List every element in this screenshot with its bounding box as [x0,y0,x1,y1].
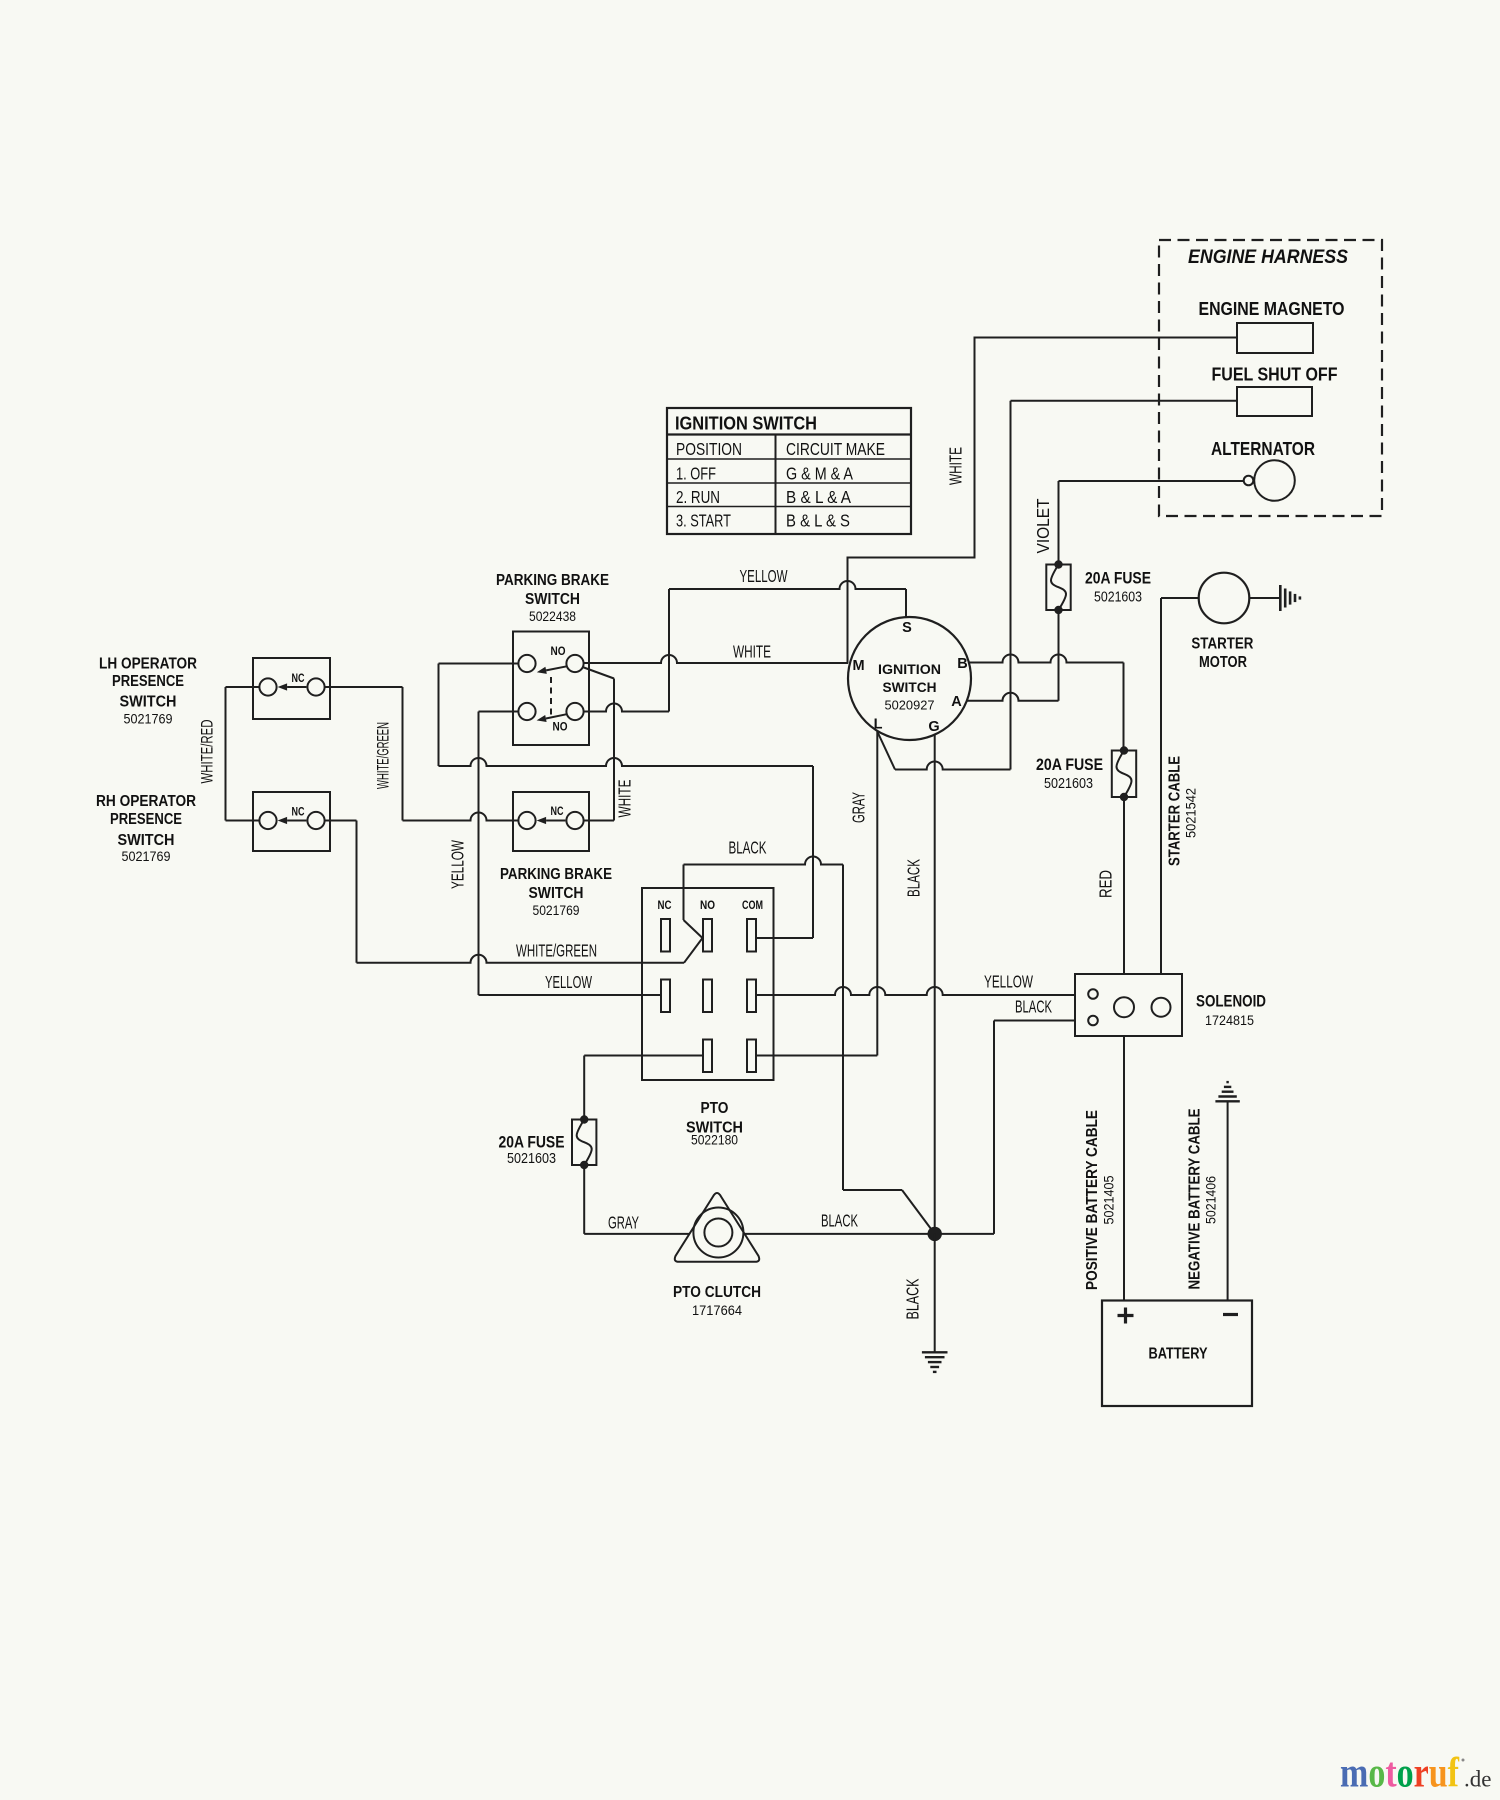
svg-text:GRAY: GRAY [608,1213,639,1233]
svg-text:WHITE: WHITE [615,780,635,818]
svg-text:5021406: 5021406 [1203,1176,1219,1224]
svg-text:MOTOR: MOTOR [1199,654,1247,671]
svg-text:G: G [928,719,939,735]
svg-text:SWITCH: SWITCH [120,694,177,711]
svg-text:CIRCUIT MAKE: CIRCUIT MAKE [786,439,885,459]
svg-text:COM: COM [742,898,763,912]
svg-text:5020927: 5020927 [885,698,935,713]
svg-text:LH OPERATOR: LH OPERATOR [99,656,197,673]
svg-text:FUEL SHUT OFF: FUEL SHUT OFF [1212,365,1338,385]
svg-text:NC: NC [551,804,564,818]
svg-text:G & M & A: G & M & A [786,464,853,484]
svg-text:5021603: 5021603 [1044,776,1093,792]
svg-text:B: B [957,656,967,672]
svg-text:NC: NC [292,805,305,819]
svg-text:M: M [852,658,864,674]
svg-text:5021603: 5021603 [1094,590,1142,606]
svg-text:SOLENOID: SOLENOID [1196,993,1266,1011]
svg-text:5021405: 5021405 [1101,1175,1117,1224]
svg-text:5022438: 5022438 [529,608,576,624]
svg-text:ENGINE HARNESS: ENGINE HARNESS [1188,246,1348,268]
svg-text:NC: NC [292,671,305,685]
svg-text:ENGINE MAGNETO: ENGINE MAGNETO [1199,299,1345,319]
svg-text:1. OFF: 1. OFF [676,464,716,484]
svg-text:S: S [902,620,912,636]
svg-text:5021603: 5021603 [507,1151,556,1167]
svg-text:NO: NO [700,898,715,912]
svg-text:WHITE/GREEN: WHITE/GREEN [516,941,597,961]
svg-text:5021769: 5021769 [533,902,580,918]
svg-text:RED: RED [1096,870,1116,898]
svg-text:A: A [951,694,962,710]
svg-text:5022180: 5022180 [691,1132,738,1148]
svg-text:BLACK: BLACK [903,1278,923,1319]
svg-text:20A FUSE: 20A FUSE [1085,569,1151,588]
svg-text:STARTER: STARTER [1191,636,1253,653]
svg-text:BLACK: BLACK [729,838,767,858]
svg-text:BATTERY: BATTERY [1149,1346,1208,1363]
svg-text:PARKING BRAKE: PARKING BRAKE [496,572,609,589]
svg-text:PTO: PTO [701,1100,729,1117]
svg-text:PRESENCE: PRESENCE [112,673,184,690]
svg-text:1717664: 1717664 [692,1302,742,1318]
svg-text:NEGATIVE BATTERY CABLE: NEGATIVE BATTERY CABLE [1187,1109,1204,1290]
svg-text:WHITE: WHITE [946,447,966,485]
svg-text:5021542: 5021542 [1183,788,1199,838]
svg-text:NO: NO [553,720,568,734]
svg-text:20A FUSE: 20A FUSE [1036,755,1103,774]
svg-text:WHITE/RED: WHITE/RED [198,720,217,784]
svg-text:BLACK: BLACK [821,1211,858,1231]
svg-text:B & L & S: B & L & S [786,511,850,531]
svg-text:3. START: 3. START [676,511,731,531]
svg-text:motoruf: motoruf [1340,1751,1460,1797]
svg-text:YELLOW: YELLOW [984,972,1033,992]
svg-text:IGNITION SWITCH: IGNITION SWITCH [675,413,817,434]
svg-text:PTO CLUTCH: PTO CLUTCH [673,1284,761,1301]
svg-text:5021769: 5021769 [122,848,171,864]
svg-text:20A FUSE: 20A FUSE [499,1133,565,1152]
svg-text:NO: NO [551,644,566,658]
svg-text:SWITCH: SWITCH [118,832,175,849]
svg-text:L: L [874,717,883,733]
svg-text:B & L & A: B & L & A [786,487,851,507]
svg-text:STARTER CABLE: STARTER CABLE [1167,756,1184,866]
svg-text:NC: NC [658,898,672,912]
svg-text:SWITCH: SWITCH [883,679,937,695]
svg-text:SWITCH: SWITCH [529,885,584,902]
svg-text:IGNITION: IGNITION [878,661,941,677]
svg-text:PRESENCE: PRESENCE [110,811,182,828]
svg-text:YELLOW: YELLOW [740,566,788,586]
svg-text:BLACK: BLACK [1015,997,1052,1017]
svg-text:ALTERNATOR: ALTERNATOR [1211,439,1315,459]
svg-text:WHITE/GREEN: WHITE/GREEN [374,722,393,789]
svg-text:YELLOW: YELLOW [545,972,592,992]
svg-text:1724815: 1724815 [1205,1012,1254,1028]
svg-text:POSITIVE BATTERY CABLE: POSITIVE BATTERY CABLE [1084,1110,1101,1290]
svg-text:2. RUN: 2. RUN [676,487,720,507]
svg-text:VIOLET: VIOLET [1033,498,1053,553]
svg-text:RH OPERATOR: RH OPERATOR [96,793,196,810]
svg-text:5021769: 5021769 [124,711,173,727]
svg-text:WHITE: WHITE [733,642,771,662]
svg-text:.de: .de [1464,1767,1491,1792]
svg-text:PARKING BRAKE: PARKING BRAKE [500,866,612,883]
svg-text:BLACK: BLACK [904,859,924,897]
svg-text:SWITCH: SWITCH [525,591,580,608]
svg-text:GRAY: GRAY [849,792,869,823]
svg-text:POSITION: POSITION [676,439,742,459]
svg-text:YELLOW: YELLOW [448,840,468,889]
